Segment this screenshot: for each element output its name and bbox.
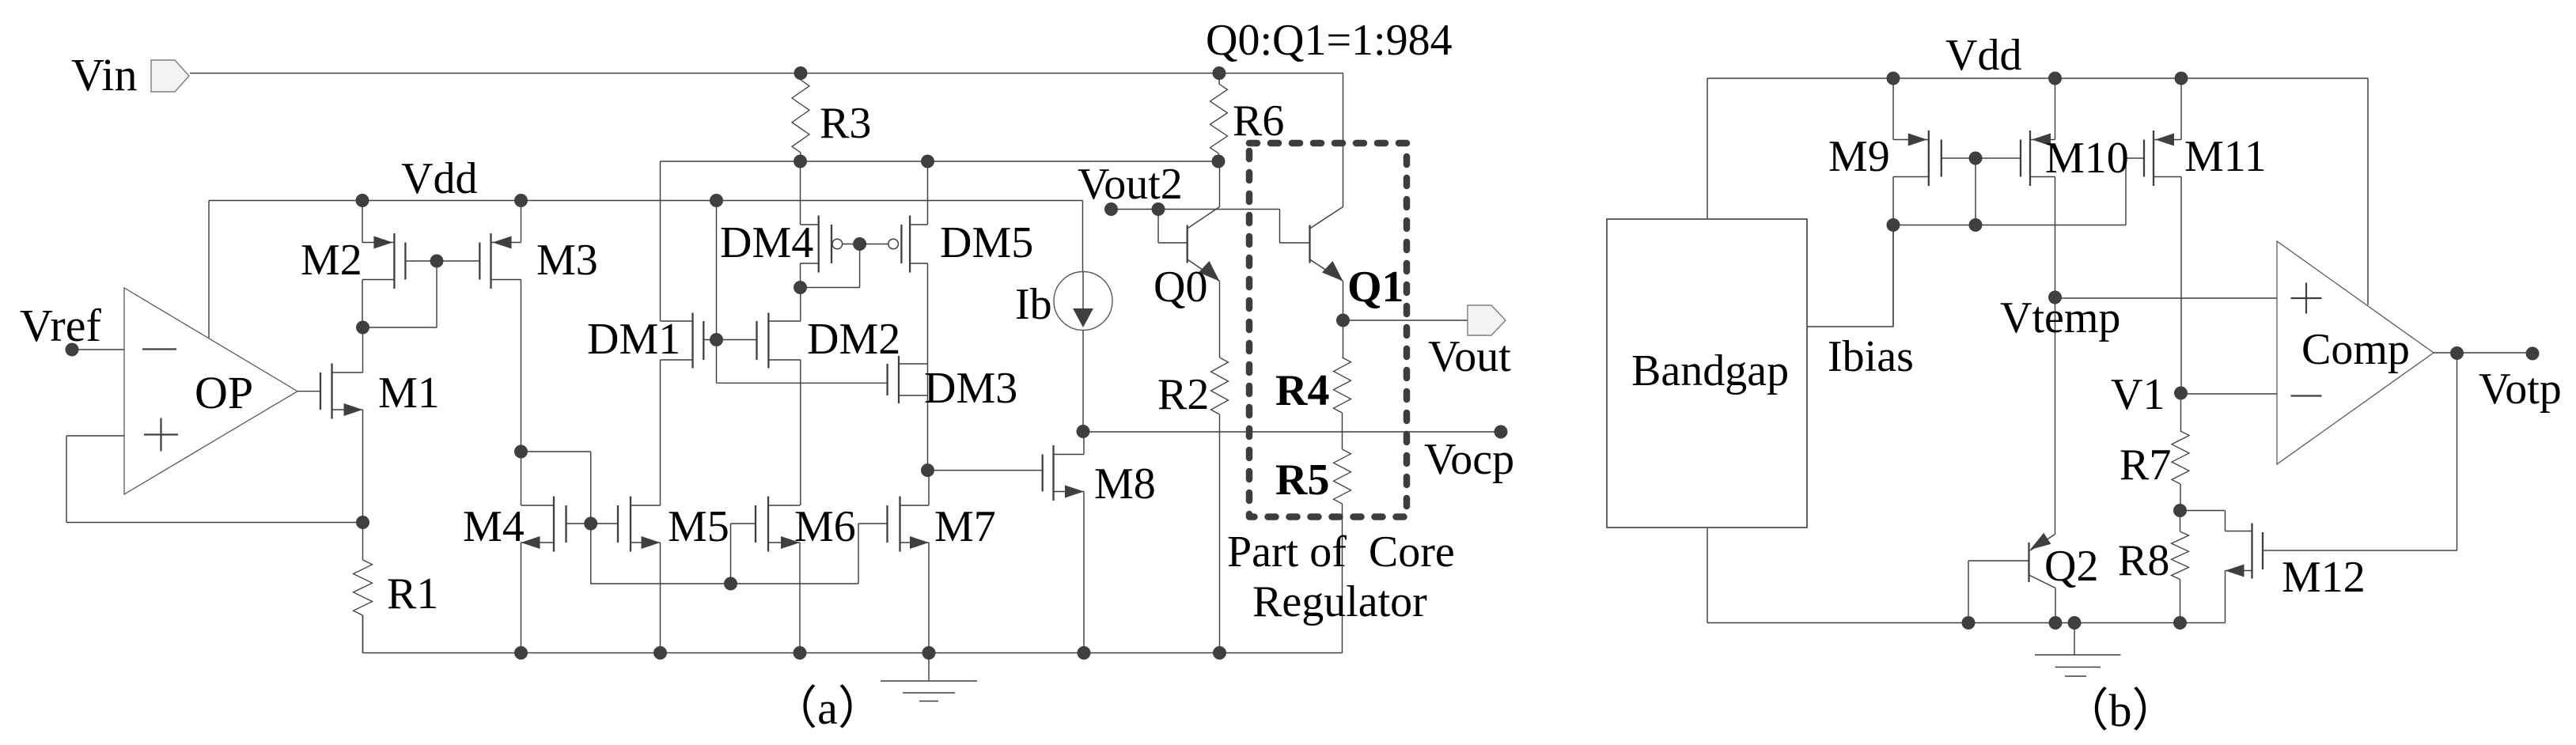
node rail-gnd <box>2068 616 2082 630</box>
svg-text:M3: M3 <box>536 236 598 285</box>
wire M2 drain <box>362 201 363 243</box>
wire DM2 source to M6 drain <box>800 360 801 505</box>
wire M12 gate to Votp <box>2263 354 2457 551</box>
wire Vdd rail (b) <box>1707 78 2368 79</box>
svg-text:R1: R1 <box>387 569 438 618</box>
dashed box Part of Core Regulator <box>1249 143 1407 517</box>
wire Vref to OP- <box>72 349 124 350</box>
block Bandgap <box>1607 219 1807 528</box>
wire DM1 bus upper <box>660 161 661 321</box>
wire M1 source down <box>362 410 364 523</box>
transistor M8 <box>1043 445 1084 501</box>
wire M4 source down <box>521 543 522 653</box>
node Comp out <box>2450 346 2464 360</box>
svg-text:Vref: Vref <box>20 300 101 351</box>
svg-text:R7: R7 <box>2120 441 2171 490</box>
resistor R1 <box>354 523 373 653</box>
wire Bandgap to ground rail <box>1707 528 1708 623</box>
node top-R3 <box>794 66 808 80</box>
node V1 <box>2174 387 2188 400</box>
comparator Comp <box>2277 241 2434 464</box>
wire Vdd rail (a) <box>209 200 1083 202</box>
svg-text:M10: M10 <box>2045 134 2129 183</box>
svg-text:DM4: DM4 <box>720 218 813 267</box>
wire M10 drain <box>2055 78 2056 140</box>
wire M4 gate lead <box>566 523 591 524</box>
wire M8 source down <box>1083 492 1085 653</box>
transistor M1 <box>320 364 363 419</box>
node Vout2 <box>1104 202 1118 216</box>
node Vdd-M11 <box>2175 72 2188 85</box>
wire Vdd to Bandgap <box>1707 78 1708 219</box>
wire Vout <box>1343 320 1468 321</box>
transistor Q1 <box>1310 74 1343 282</box>
transistor DM4 <box>801 216 843 273</box>
svg-text:OP: OP <box>195 367 253 418</box>
wire M4-M7 gate bus <box>591 583 858 584</box>
wire M8 drain up <box>1083 431 1085 455</box>
transistor M7 <box>888 497 930 552</box>
node M8 drain <box>1077 425 1090 438</box>
wire M9 drain <box>1892 78 1894 140</box>
node Vdd-M3 <box>514 194 528 207</box>
node rail-Q2 base <box>1962 616 1976 630</box>
node M2 gate <box>430 255 444 268</box>
node Q0 base tap <box>1152 202 1165 216</box>
wire M5 drain up <box>660 360 661 505</box>
wire gate tie down <box>801 244 860 288</box>
svg-text:（a）: （a） <box>771 683 884 734</box>
node Vdd-DM-gates <box>710 194 723 207</box>
wire R3 node to DM4 <box>800 161 801 225</box>
node rail-Q2 collector <box>2049 616 2063 630</box>
node M9 gate tie <box>1969 152 1983 165</box>
wire V1 to Comp- <box>2181 393 2278 395</box>
transistor M11 <box>2144 130 2181 186</box>
wire M11 drain <box>2180 78 2182 140</box>
node rail-M8 <box>1078 646 1091 660</box>
node rail-M4 <box>514 646 528 660</box>
wire Vdd drop to gates <box>716 201 718 384</box>
wire DM5 drain up <box>927 161 929 225</box>
wire M7 gate riser <box>858 524 888 584</box>
wire M5 source down <box>660 543 661 653</box>
wire DM2 gate lead <box>717 339 757 341</box>
node rail-R2 <box>1213 646 1226 660</box>
svg-text:Bandgap: Bandgap <box>1631 346 1789 395</box>
transistor M4 <box>521 497 566 552</box>
transistor M5 <box>618 497 661 552</box>
wire R7R8 to M12 drain <box>2180 511 2252 531</box>
wire DM5 source to DM3 <box>927 263 929 471</box>
wire Vdd to Comp <box>2367 78 2369 305</box>
svg-text:Vout2: Vout2 <box>1078 160 1183 209</box>
wire M10 source down <box>2055 177 2056 535</box>
node M9 source <box>1887 218 1900 232</box>
svg-text:R3: R3 <box>820 99 871 148</box>
wire OP+ feedback <box>66 436 363 523</box>
node rail-M7 <box>922 646 936 660</box>
wire ground rail (a) <box>363 652 1343 654</box>
svg-text:Regulator: Regulator <box>1252 577 1427 626</box>
node M6 gate <box>724 577 737 591</box>
wire R1 rail rise <box>362 615 364 653</box>
node DM4-DM5 gate <box>853 237 866 251</box>
transistor M12 <box>2226 524 2263 623</box>
node DM1-DM2 gates <box>710 333 723 346</box>
svg-text:R6: R6 <box>1233 96 1284 146</box>
svg-text:Vocp: Vocp <box>1424 435 1514 484</box>
svg-text:M5: M5 <box>668 502 729 551</box>
wire gate to M5 <box>591 523 618 524</box>
wire Q0 base drop <box>1158 210 1188 244</box>
svg-text:M7: M7 <box>934 502 996 551</box>
wire M2 gate tie <box>363 261 480 327</box>
svg-text:M11: M11 <box>2184 132 2267 181</box>
wire M9-M10 gate <box>1941 157 2021 159</box>
svg-text:R5: R5 <box>1275 456 1329 505</box>
svg-text:Q0: Q0 <box>1154 263 1207 312</box>
node Vout <box>1336 314 1350 327</box>
resistor R5 <box>1334 449 1351 653</box>
svg-text:Part of Core: Part of Core <box>1227 528 1455 577</box>
port Vout <box>1468 305 1506 335</box>
wire DM5 gate lead <box>860 244 888 245</box>
node M3-M4 <box>514 445 528 459</box>
svg-text:Ib: Ib <box>1015 280 1052 329</box>
node R7-R8 <box>2173 504 2187 517</box>
wire M3 drain <box>521 201 522 243</box>
wire Comp output <box>2434 352 2532 354</box>
transistor M6 <box>756 497 800 552</box>
node top-R6 <box>1213 66 1226 80</box>
wire M1 drain up <box>362 327 364 372</box>
node Vdd-M9 <box>1887 72 1900 85</box>
svg-text:M9: M9 <box>1828 132 1890 181</box>
svg-text:DM3: DM3 <box>924 364 1017 413</box>
transistor Q2 <box>2029 533 2056 623</box>
transistor DM3 <box>888 356 928 403</box>
node Vdd-M2 <box>356 194 369 207</box>
wire DM4 node to DM2 drain <box>800 288 801 322</box>
resistor R8 <box>2172 511 2189 623</box>
svg-text:M2: M2 <box>301 236 362 285</box>
wire Vin top rail <box>190 73 1343 74</box>
svg-text:Comp: Comp <box>2301 325 2410 374</box>
wire Vdd to op-amp <box>208 201 210 338</box>
node M4-M5 gate <box>584 517 597 531</box>
wire OP out to M1 gate <box>297 391 320 392</box>
wire M6 gate lead <box>731 524 756 584</box>
svg-text:R4: R4 <box>1275 366 1329 415</box>
transistor Q0 <box>1188 161 1220 282</box>
svg-text:Q2: Q2 <box>2044 542 2098 591</box>
wire M7 drain up <box>928 471 930 505</box>
wire Q1 emitter down <box>1343 282 1344 321</box>
svg-text:Vout: Vout <box>1428 332 1511 381</box>
node mid-R3 <box>794 155 807 168</box>
ground (b) <box>2035 623 2121 677</box>
ground (a) <box>881 653 977 702</box>
wire M2 source down <box>362 280 363 328</box>
svg-text:M8: M8 <box>1094 459 1156 509</box>
wire gate line to DM3 <box>717 382 888 384</box>
svg-text:Q1: Q1 <box>1347 263 1404 312</box>
svg-text:Q0:Q1=1:984: Q0:Q1=1:984 <box>1206 16 1453 65</box>
svg-text:R2: R2 <box>1157 370 1209 419</box>
wire Vtemp to Comp+ <box>2055 297 2278 299</box>
wire node to M8 gate <box>928 470 1043 471</box>
svg-text:M12: M12 <box>2282 553 2366 602</box>
wire node to M4 gate bus <box>521 452 591 584</box>
port Vin <box>151 60 189 92</box>
node mid-DM5 <box>921 155 934 168</box>
node Vdd-M10 <box>2048 72 2062 85</box>
resistor R2 <box>1211 282 1229 653</box>
resistor R7 <box>2172 393 2189 511</box>
op-amp OP <box>124 288 297 494</box>
wire M11 source down <box>2180 177 2182 393</box>
resistor R4 <box>1334 320 1351 449</box>
transistor M2 <box>362 233 405 289</box>
wire DM4 gate lead <box>843 244 860 245</box>
svg-text:M1: M1 <box>378 369 440 418</box>
node Vtemp <box>2048 291 2062 304</box>
wire mid rail y204 <box>661 161 1219 162</box>
svg-text:Vdd: Vdd <box>401 154 477 203</box>
svg-text:R8: R8 <box>2118 536 2169 585</box>
wire Vout2 line <box>1112 210 1310 244</box>
node Votp <box>2526 347 2540 361</box>
node rail-M6 <box>794 646 807 660</box>
node mid-R6 <box>1212 155 1225 168</box>
svg-text:V1: V1 <box>2111 370 2165 419</box>
current source Ib <box>1054 201 1112 432</box>
wire DM1 gate lead <box>703 339 716 341</box>
svg-text:M4: M4 <box>463 502 525 551</box>
resistor R6 <box>1210 74 1228 162</box>
transistor M10 <box>2021 130 2055 186</box>
node DM4 drain-gate <box>794 281 807 294</box>
transistor DM5 <box>888 216 928 273</box>
svg-text:DM5: DM5 <box>940 218 1033 267</box>
wire M4 drain up <box>521 452 522 505</box>
wire gate tie down <box>1975 158 1976 225</box>
svg-text:DM2: DM2 <box>807 315 900 364</box>
node gate bus tap <box>1969 218 1983 232</box>
resistor R3 <box>792 74 809 162</box>
wire ground rail (b) <box>1707 622 2226 624</box>
wire M9 source down <box>1892 177 1894 327</box>
wire M7 source down <box>928 543 930 653</box>
wire bias bus <box>1893 158 2144 225</box>
transistor M3 <box>479 233 521 289</box>
svg-text:Votp: Votp <box>2479 365 2562 414</box>
svg-text:DM1: DM1 <box>587 315 680 364</box>
transistor DM1 <box>661 313 704 369</box>
svg-text:M6: M6 <box>794 502 856 551</box>
node DM3-M7-M8 <box>921 463 934 477</box>
svg-text:Vin: Vin <box>71 49 138 100</box>
svg-text:Vdd: Vdd <box>1945 31 2021 80</box>
wire Q2 base <box>1968 561 2029 623</box>
node M1 drain <box>356 321 369 335</box>
wire DM4 drain down <box>800 263 801 288</box>
wire Vocp line <box>1083 431 1501 433</box>
svg-text:（b）: （b） <box>2063 685 2177 736</box>
svg-text:Ibias: Ibias <box>1828 332 1914 381</box>
transistor DM2 <box>757 313 801 369</box>
wire M6 source down <box>799 543 801 653</box>
node rail-R8 <box>2173 616 2187 630</box>
node Vref <box>66 343 79 357</box>
node Vocp end <box>1494 425 1508 439</box>
node feedback <box>356 516 369 529</box>
node rail-M5 <box>653 646 667 660</box>
wire M3 source down <box>521 280 522 452</box>
transistor M9 <box>1893 130 1941 186</box>
wire Ibias <box>1807 225 1893 327</box>
svg-text:Vtemp: Vtemp <box>2000 293 2120 342</box>
